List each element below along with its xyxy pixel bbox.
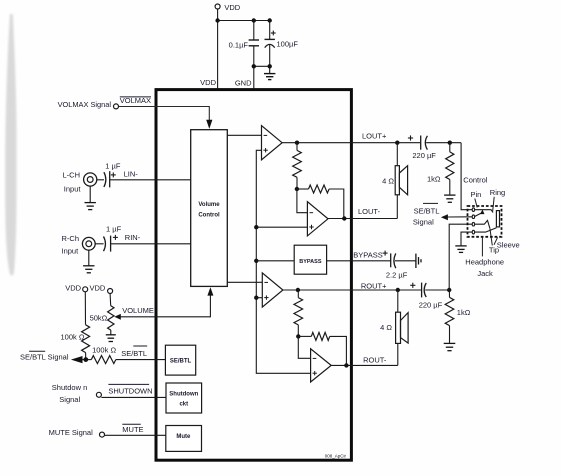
label SE/BTL Signal left	[20, 351, 69, 361]
net label VOLMAX	[120, 96, 151, 105]
ground jack	[455, 246, 466, 253]
wire node L to jack pin1	[461, 143, 472, 210]
jack ring contact	[475, 210, 493, 213]
svg-text:LOUT-: LOUT-	[358, 207, 381, 216]
svg-text:2.2 µF: 2.2 µF	[386, 270, 408, 279]
speaker LS2 4ohm	[396, 290, 409, 365]
op-amp U2B left bottom	[307, 202, 328, 236]
junction dot U2C output	[296, 288, 300, 292]
arrow SE/BTL signal left	[71, 356, 83, 363]
svg-text:RIN-: RIN-	[125, 233, 141, 242]
svg-text:LIN-: LIN-	[124, 169, 139, 178]
pot wiper arrow	[114, 314, 121, 320]
svg-text:L-CH: L-CH	[63, 171, 81, 180]
jack switch arrow	[475, 210, 485, 217]
wire ROUT-	[331, 364, 398, 366]
svg-text:VOLMAX Signal: VOLMAX Signal	[58, 100, 112, 109]
svg-text:MUTE Signal: MUTE Signal	[49, 428, 94, 437]
svg-text:Signal: Signal	[59, 395, 80, 404]
block BYPASS	[294, 245, 326, 274]
junction dot VDD rail left	[215, 18, 219, 22]
wire J2 to cap	[95, 243, 103, 245]
terminal VOLMAX	[114, 104, 119, 109]
svg-text:Mute: Mute	[176, 434, 191, 440]
wire LOUT-	[328, 218, 397, 220]
jack tip contact	[475, 220, 490, 228]
arrow into volume control top	[206, 120, 212, 129]
resistor R2 100k vertical	[82, 325, 90, 353]
svg-text:Control: Control	[198, 212, 220, 218]
wire node R to jack pin3	[449, 224, 472, 290]
potentiometer VR1 50k	[108, 306, 114, 330]
label SE/BTL Signal right	[413, 203, 440, 226]
svg-text:Jack: Jack	[477, 269, 493, 278]
wire cap bottom rail	[254, 65, 270, 67]
svg-text:4 Ω: 4 Ω	[380, 323, 392, 332]
svg-text:SE/BTL: SE/BTL	[170, 358, 192, 364]
wire U2B inverting input	[297, 189, 308, 213]
net label MUTE	[122, 424, 143, 434]
svg-text:SE/BTL: SE/BTL	[414, 206, 440, 215]
op-amp U2C right top	[262, 273, 283, 307]
junction dot speaker L	[395, 141, 399, 145]
svg-text:VOLMAX: VOLMAX	[120, 96, 151, 105]
leader Tip	[490, 228, 492, 245]
svg-text:VDD: VDD	[65, 284, 81, 293]
wire U2D inverting input	[298, 336, 310, 358]
svg-text:100µF: 100µF	[277, 39, 299, 48]
wire MUTE into IC	[105, 434, 166, 436]
wire RIN-	[111, 243, 191, 245]
junction dot rail bottom left	[252, 64, 256, 68]
junction dot speaker R	[396, 288, 400, 292]
svg-text:MUTE: MUTE	[122, 425, 143, 434]
wire GND pin	[253, 66, 255, 88]
svg-text:GND: GND	[235, 78, 252, 87]
resistor R7 feedback R horizontal	[298, 332, 346, 365]
op-amp U2D right bottom	[311, 349, 332, 382]
ground bypass sideways	[416, 254, 421, 268]
svg-text:Shutdow n: Shutdow n	[52, 383, 87, 392]
ground R8	[444, 195, 455, 202]
junction dot L feedback	[295, 187, 299, 191]
wire LIN-	[110, 179, 191, 181]
svg-text:1kΩ: 1kΩ	[427, 174, 441, 183]
label Shutdown Signal	[52, 383, 87, 404]
svg-text:Volume: Volume	[198, 202, 220, 208]
block Mute	[166, 426, 202, 452]
jack pin 2	[472, 215, 474, 219]
ground J2	[83, 250, 94, 273]
wire U2A plus feedback rail	[256, 150, 310, 373]
capacitor C2 100uF polarized	[265, 21, 276, 67]
wire VDD to R2	[84, 292, 86, 325]
arrow SE/BTL signal right	[441, 214, 448, 220]
capacitor C4 1uF input R	[104, 235, 118, 252]
svg-text:BYPASS: BYPASS	[353, 250, 382, 259]
leader Sleeve	[494, 237, 498, 245]
wire LOUT+	[282, 142, 420, 144]
svg-text:008_ApCir: 008_ApCir	[325, 454, 347, 459]
svg-text:Sleeve: Sleeve	[497, 240, 520, 249]
wire cap L to node	[426, 142, 461, 144]
jack sleeve contact	[475, 228, 497, 232]
wire VOLMAX into volume control	[119, 107, 210, 121]
junction dot ROUT- feedback	[344, 363, 348, 367]
junction dot SE/BTL	[83, 357, 88, 362]
junction dot plus rail amp3	[254, 296, 258, 300]
wire SHUTDOWN into IC	[101, 396, 166, 398]
wire BYPASS out	[327, 260, 391, 262]
headphone jack J3 dashed box	[468, 206, 502, 237]
ground J1	[85, 186, 96, 210]
svg-text:Shutdown: Shutdown	[169, 392, 198, 398]
resistor R3 100k horizontal	[91, 356, 116, 364]
svg-text:VOLUME: VOLUME	[122, 306, 154, 315]
jack pin 1	[472, 208, 474, 212]
svg-text:Input: Input	[62, 246, 80, 255]
junction dot LOUT- feedback	[342, 216, 346, 220]
svg-text:0.1µF: 0.1µF	[229, 40, 249, 49]
resistor R8 1k L	[446, 143, 454, 195]
junction dot bypass rail	[254, 259, 258, 263]
svg-text:R-Ch: R-Ch	[62, 234, 80, 243]
svg-text:Ring: Ring	[490, 188, 505, 197]
svg-text:100k Ω: 100k Ω	[61, 333, 85, 342]
leader Headphone Jack	[481, 237, 483, 257]
svg-text:LOUT+: LOUT+	[362, 131, 387, 140]
wire bypass cap to ground	[395, 260, 416, 262]
wire J1 to cap	[97, 179, 104, 181]
wire cap R to node	[425, 289, 449, 291]
svg-text:1kΩ: 1kΩ	[457, 308, 471, 317]
wire VOLUME	[120, 295, 210, 317]
block Volume Control	[191, 130, 228, 287]
resistor R9 1k R	[445, 290, 454, 343]
junction dot U2A output	[295, 141, 299, 145]
terminal SHUTDOWN	[96, 392, 101, 397]
wire VDD to pot	[109, 294, 112, 306]
svg-text:1 µF: 1 µF	[106, 225, 122, 234]
wire VDD vertical	[217, 9, 219, 89]
jack pin 4	[472, 230, 474, 234]
wire R2 bottom	[85, 353, 87, 360]
resistor R5 feedback L horizontal	[297, 185, 344, 219]
svg-text:VDD: VDD	[200, 78, 216, 87]
label L-CH Input	[63, 171, 82, 194]
svg-text:Control: Control	[463, 176, 488, 185]
wire bypass tap	[256, 260, 294, 262]
terminal MUTE	[100, 432, 105, 437]
svg-text:4 Ω: 4 Ω	[382, 177, 394, 186]
wire ROUT+	[283, 289, 422, 291]
block SE/BTL	[165, 345, 195, 375]
ground pot	[106, 330, 116, 341]
svg-text:ckt: ckt	[179, 402, 188, 408]
block Shutdown ckt	[166, 383, 202, 413]
capacitor C3 1uF input L	[104, 171, 116, 187]
svg-text:Signal: Signal	[413, 217, 434, 226]
wire VDD rail	[218, 20, 270, 22]
svg-text:Headphone: Headphone	[465, 257, 504, 266]
junction dot R feedback	[296, 334, 300, 338]
leader Ring	[493, 197, 495, 211]
svg-text:220 µF: 220 µF	[419, 301, 443, 310]
wire arrow to junction	[83, 359, 92, 361]
svg-text:SE/BTL Signal: SE/BTL Signal	[20, 353, 69, 362]
svg-text:SHUTDOWN: SHUTDOWN	[108, 386, 152, 395]
terminal VDD	[215, 4, 220, 9]
capacitor C5 220uF L	[408, 135, 428, 149]
connector J2 R-Ch	[82, 237, 95, 250]
svg-text:SE/BTL: SE/BTL	[121, 349, 147, 358]
wire jack pin4 to ground	[461, 232, 472, 246]
ground R9	[444, 343, 456, 350]
svg-text:ROUT+: ROUT+	[361, 281, 387, 290]
svg-text:VDD: VDD	[90, 284, 106, 293]
svg-text:ROUT-: ROUT-	[363, 355, 387, 364]
jack pin 3	[472, 222, 474, 226]
net label SHUTDOWN	[108, 384, 152, 395]
capacitor C7 220uF R	[410, 283, 426, 298]
svg-text:50kΩ: 50kΩ	[90, 314, 108, 323]
jack sleeve body	[496, 211, 499, 227]
junction dot node L	[448, 141, 452, 145]
wire SE/BTL into IC	[116, 359, 166, 361]
capacitor C1 0.1uF	[249, 21, 259, 67]
junction dot plus rail amp2	[254, 225, 258, 229]
net label SE/BTL	[121, 346, 147, 358]
label R-Ch Input	[62, 234, 80, 255]
svg-text:Input: Input	[64, 185, 82, 194]
ground top decoupling	[264, 66, 275, 79]
op-amp U2A left top	[262, 126, 283, 160]
terminal VDD pot left	[83, 287, 88, 292]
arrow into volume control bottom	[207, 287, 213, 295]
resistor R6 feedback R vertical	[294, 290, 303, 336]
leader Pin	[475, 199, 477, 208]
svg-text:VDD: VDD	[224, 3, 240, 12]
wire U2B plus input	[256, 226, 307, 228]
svg-text:Pin: Pin	[471, 190, 482, 199]
terminal VDD pot right	[108, 289, 113, 294]
junction dot node R	[447, 288, 451, 292]
wire U2C plus input	[256, 297, 262, 299]
svg-text:100k Ω: 100k Ω	[92, 345, 116, 354]
svg-text:1 µF: 1 µF	[105, 161, 121, 170]
connector J1 L-CH	[84, 173, 97, 186]
svg-text:220 µF: 220 µF	[412, 151, 436, 160]
capacitor C6 2.2uF bypass	[383, 251, 396, 269]
svg-text:BYPASS: BYPASS	[299, 259, 322, 265]
resistor R4 feedback L vertical	[293, 143, 302, 189]
junction dot C2 top	[268, 18, 272, 22]
page curl artifact	[5, 14, 16, 276]
junction dot C1 top	[252, 18, 256, 22]
IC box U1	[156, 90, 351, 461]
wire control pin out	[448, 216, 473, 218]
speaker LS1 4ohm	[395, 143, 407, 219]
wire volume to U2A inverting input	[227, 134, 261, 136]
junction dot rail bottom right	[268, 64, 272, 68]
wire volume to U2C inverting input	[227, 281, 262, 283]
